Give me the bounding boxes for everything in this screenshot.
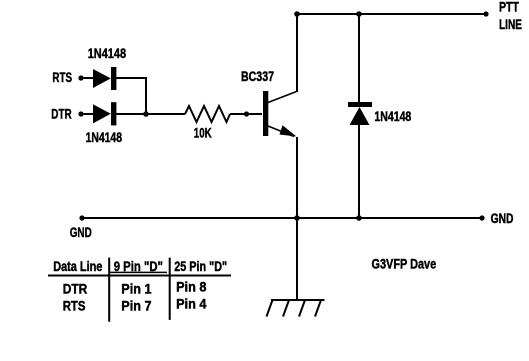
svg-text:1N4148: 1N4148 [88,45,127,61]
svg-text:G3VFP Dave: G3VFP Dave [372,255,437,271]
svg-text:RTS: RTS [52,69,72,85]
svg-text:DTR: DTR [63,281,88,297]
svg-text:BC337: BC337 [241,68,274,84]
svg-text:DTR: DTR [51,106,71,122]
svg-text:PTT: PTT [499,0,519,14]
svg-text:Pin 7: Pin 7 [121,298,151,314]
svg-text:10K: 10K [194,125,212,141]
svg-text:9 Pin "D": 9 Pin "D" [114,258,163,274]
svg-text:Pin 1: Pin 1 [121,281,151,297]
svg-text:1N4148: 1N4148 [86,129,123,145]
svg-text:25 Pin "D": 25 Pin "D" [174,258,227,274]
svg-text:GND: GND [70,224,92,240]
svg-text:Data Line: Data Line [53,258,102,274]
svg-text:RTS: RTS [63,298,86,314]
svg-text:GND: GND [491,210,514,226]
svg-text:LINE: LINE [499,16,522,32]
svg-text:Pin 4: Pin 4 [176,296,206,312]
svg-text:Pin 8: Pin 8 [176,279,206,295]
svg-text:1N4148: 1N4148 [374,108,411,124]
